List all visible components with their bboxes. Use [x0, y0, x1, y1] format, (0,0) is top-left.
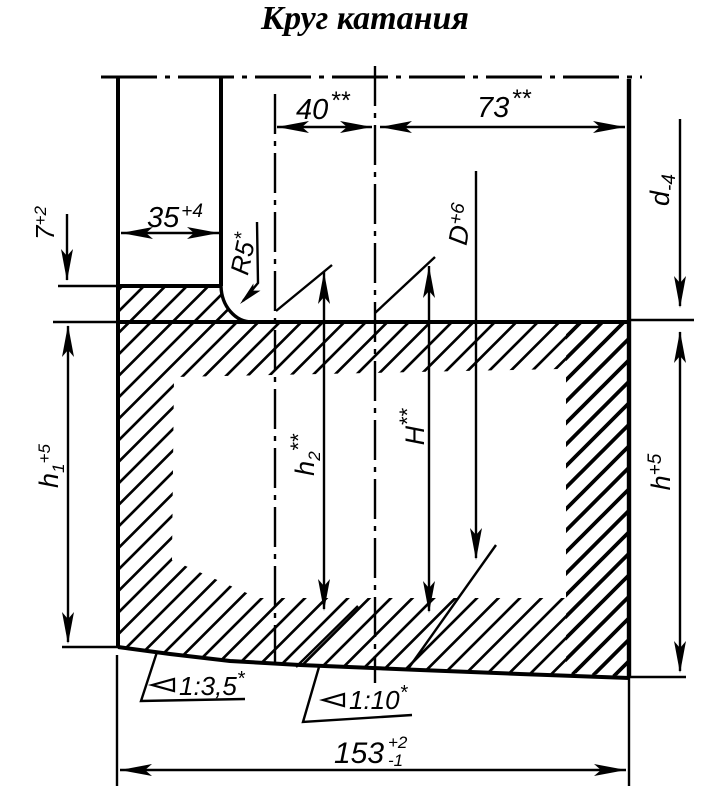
svg-text:-1: -1	[388, 751, 403, 770]
svg-text:+2: +2	[388, 733, 408, 752]
svg-text:153: 153	[334, 737, 384, 770]
svg-text:Круг катания: Круг катания	[260, 0, 469, 37]
svg-text:1:3,5*: 1:3,5*	[179, 668, 246, 701]
